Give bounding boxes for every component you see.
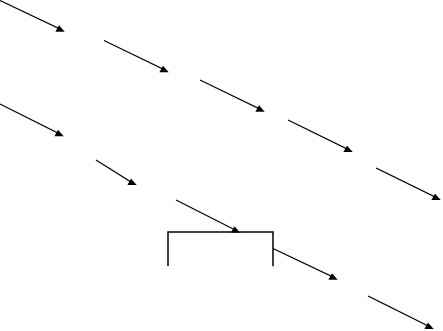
arrow A3 bbox=[200, 80, 265, 112]
arrow B5 bbox=[368, 296, 434, 329]
arrow A5 bbox=[376, 168, 441, 200]
arrow A2 bbox=[104, 41, 169, 73]
arrow B4 bbox=[273, 249, 338, 280]
arrow B1 bbox=[0, 104, 64, 136]
bracket bbox=[168, 232, 273, 266]
arrow A1 bbox=[0, 1, 65, 32]
arrow B2 bbox=[96, 160, 137, 185]
arrow A4 bbox=[288, 120, 353, 152]
arrow B3 bbox=[176, 200, 240, 233]
